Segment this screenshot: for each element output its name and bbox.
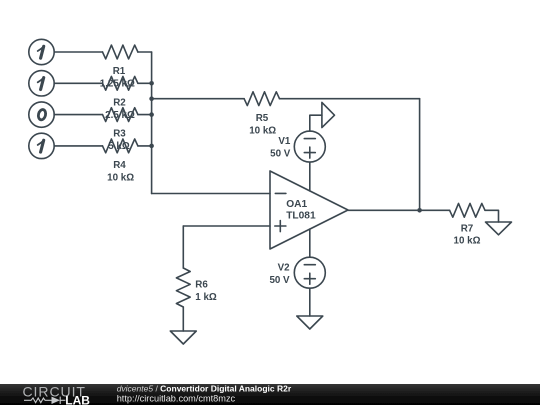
wire R6 vertical top [182, 226, 184, 268]
ground under R6 [170, 331, 196, 344]
junction output node [417, 208, 422, 213]
svg-text:http://circuitlab.com/cmt8mzc: http://circuitlab.com/cmt8mzc [117, 394, 236, 404]
resistor R7 [450, 203, 485, 217]
resistor R2 [103, 76, 138, 90]
svg-text:V2: V2 [278, 263, 291, 274]
digital source D4 value 1 [29, 133, 54, 158]
svg-text:1 kΩ: 1 kΩ [195, 292, 217, 303]
svg-text:50 V: 50 V [269, 275, 290, 286]
wire bus to R5 [152, 98, 245, 100]
svg-text:R2: R2 [113, 97, 126, 108]
svg-text:R4: R4 [113, 160, 126, 171]
svg-text:OA1: OA1 [286, 199, 307, 210]
digital source D3 value 0 [29, 102, 54, 127]
resistor R3 [103, 108, 138, 122]
op-amp V+ stub [309, 131, 311, 191]
digital source D2 value 1 [29, 71, 54, 96]
wire R4 to bus [138, 145, 152, 147]
resistor R6 [176, 268, 190, 307]
op-amp V- stub [309, 229, 311, 257]
voltage source V2 [294, 257, 325, 288]
wire V1 top to flag [310, 115, 322, 131]
svg-text:R7: R7 [461, 223, 474, 234]
wire source2 to R2 [54, 82, 102, 84]
svg-text:dvicente5 / Convertidor Digita: dvicente5 / Convertidor Digital Analogic… [117, 384, 292, 394]
net flag near V1 [322, 102, 335, 127]
svg-text:LAB: LAB [65, 393, 90, 405]
svg-text:R3: R3 [113, 129, 126, 140]
digital source D1 value 1 [29, 39, 54, 64]
svg-text:10 kΩ: 10 kΩ [454, 236, 481, 247]
op-amp plus sign [275, 221, 286, 232]
wire V2 to ground [309, 288, 311, 316]
wire R6 to ground [182, 307, 184, 331]
svg-text:TL081: TL081 [286, 210, 316, 221]
wire R1 to bus [138, 51, 152, 53]
svg-text:10 kΩ: 10 kΩ [107, 173, 134, 184]
svg-text:50 V: 50 V [270, 148, 291, 159]
wire summing bus vertical [151, 52, 153, 194]
wire op-amp output [348, 209, 450, 211]
junction bus R4 [149, 144, 154, 149]
op-amp minus sign [275, 192, 286, 194]
resistor R1 [103, 45, 138, 59]
resistor R4 [103, 139, 138, 153]
wire source4 to R4 [54, 145, 102, 147]
junction bus R3 [149, 112, 154, 117]
wire R2 to bus [138, 82, 152, 84]
wire bus to op-amp inverting input [152, 193, 270, 195]
wire R7 to ground corner [485, 210, 499, 222]
junction bus R5 tap [149, 96, 154, 101]
svg-text:10 kΩ: 10 kΩ [249, 126, 276, 137]
resistor R5 [244, 92, 279, 106]
ground under R7 [486, 222, 512, 235]
svg-text:V1: V1 [278, 136, 291, 147]
wire source1 to R1 [54, 51, 102, 53]
ground under V2 [297, 316, 323, 329]
wire R3 to bus [138, 114, 152, 116]
voltage source V1 [294, 131, 325, 162]
svg-text:R6: R6 [195, 280, 208, 291]
wire source3 to R3 [54, 114, 102, 116]
wire feedback vertical [419, 99, 421, 211]
svg-text:R5: R5 [256, 113, 269, 124]
CircuitLab logo resistor squiggle and diode [24, 397, 65, 404]
wire R6 corner to op-amp non-inverting input [183, 225, 270, 227]
svg-text:R1: R1 [113, 66, 126, 77]
wire R5 to feedback corner [280, 98, 420, 100]
op-amp OA1 triangle [270, 171, 348, 249]
junction bus R2 [149, 81, 154, 86]
